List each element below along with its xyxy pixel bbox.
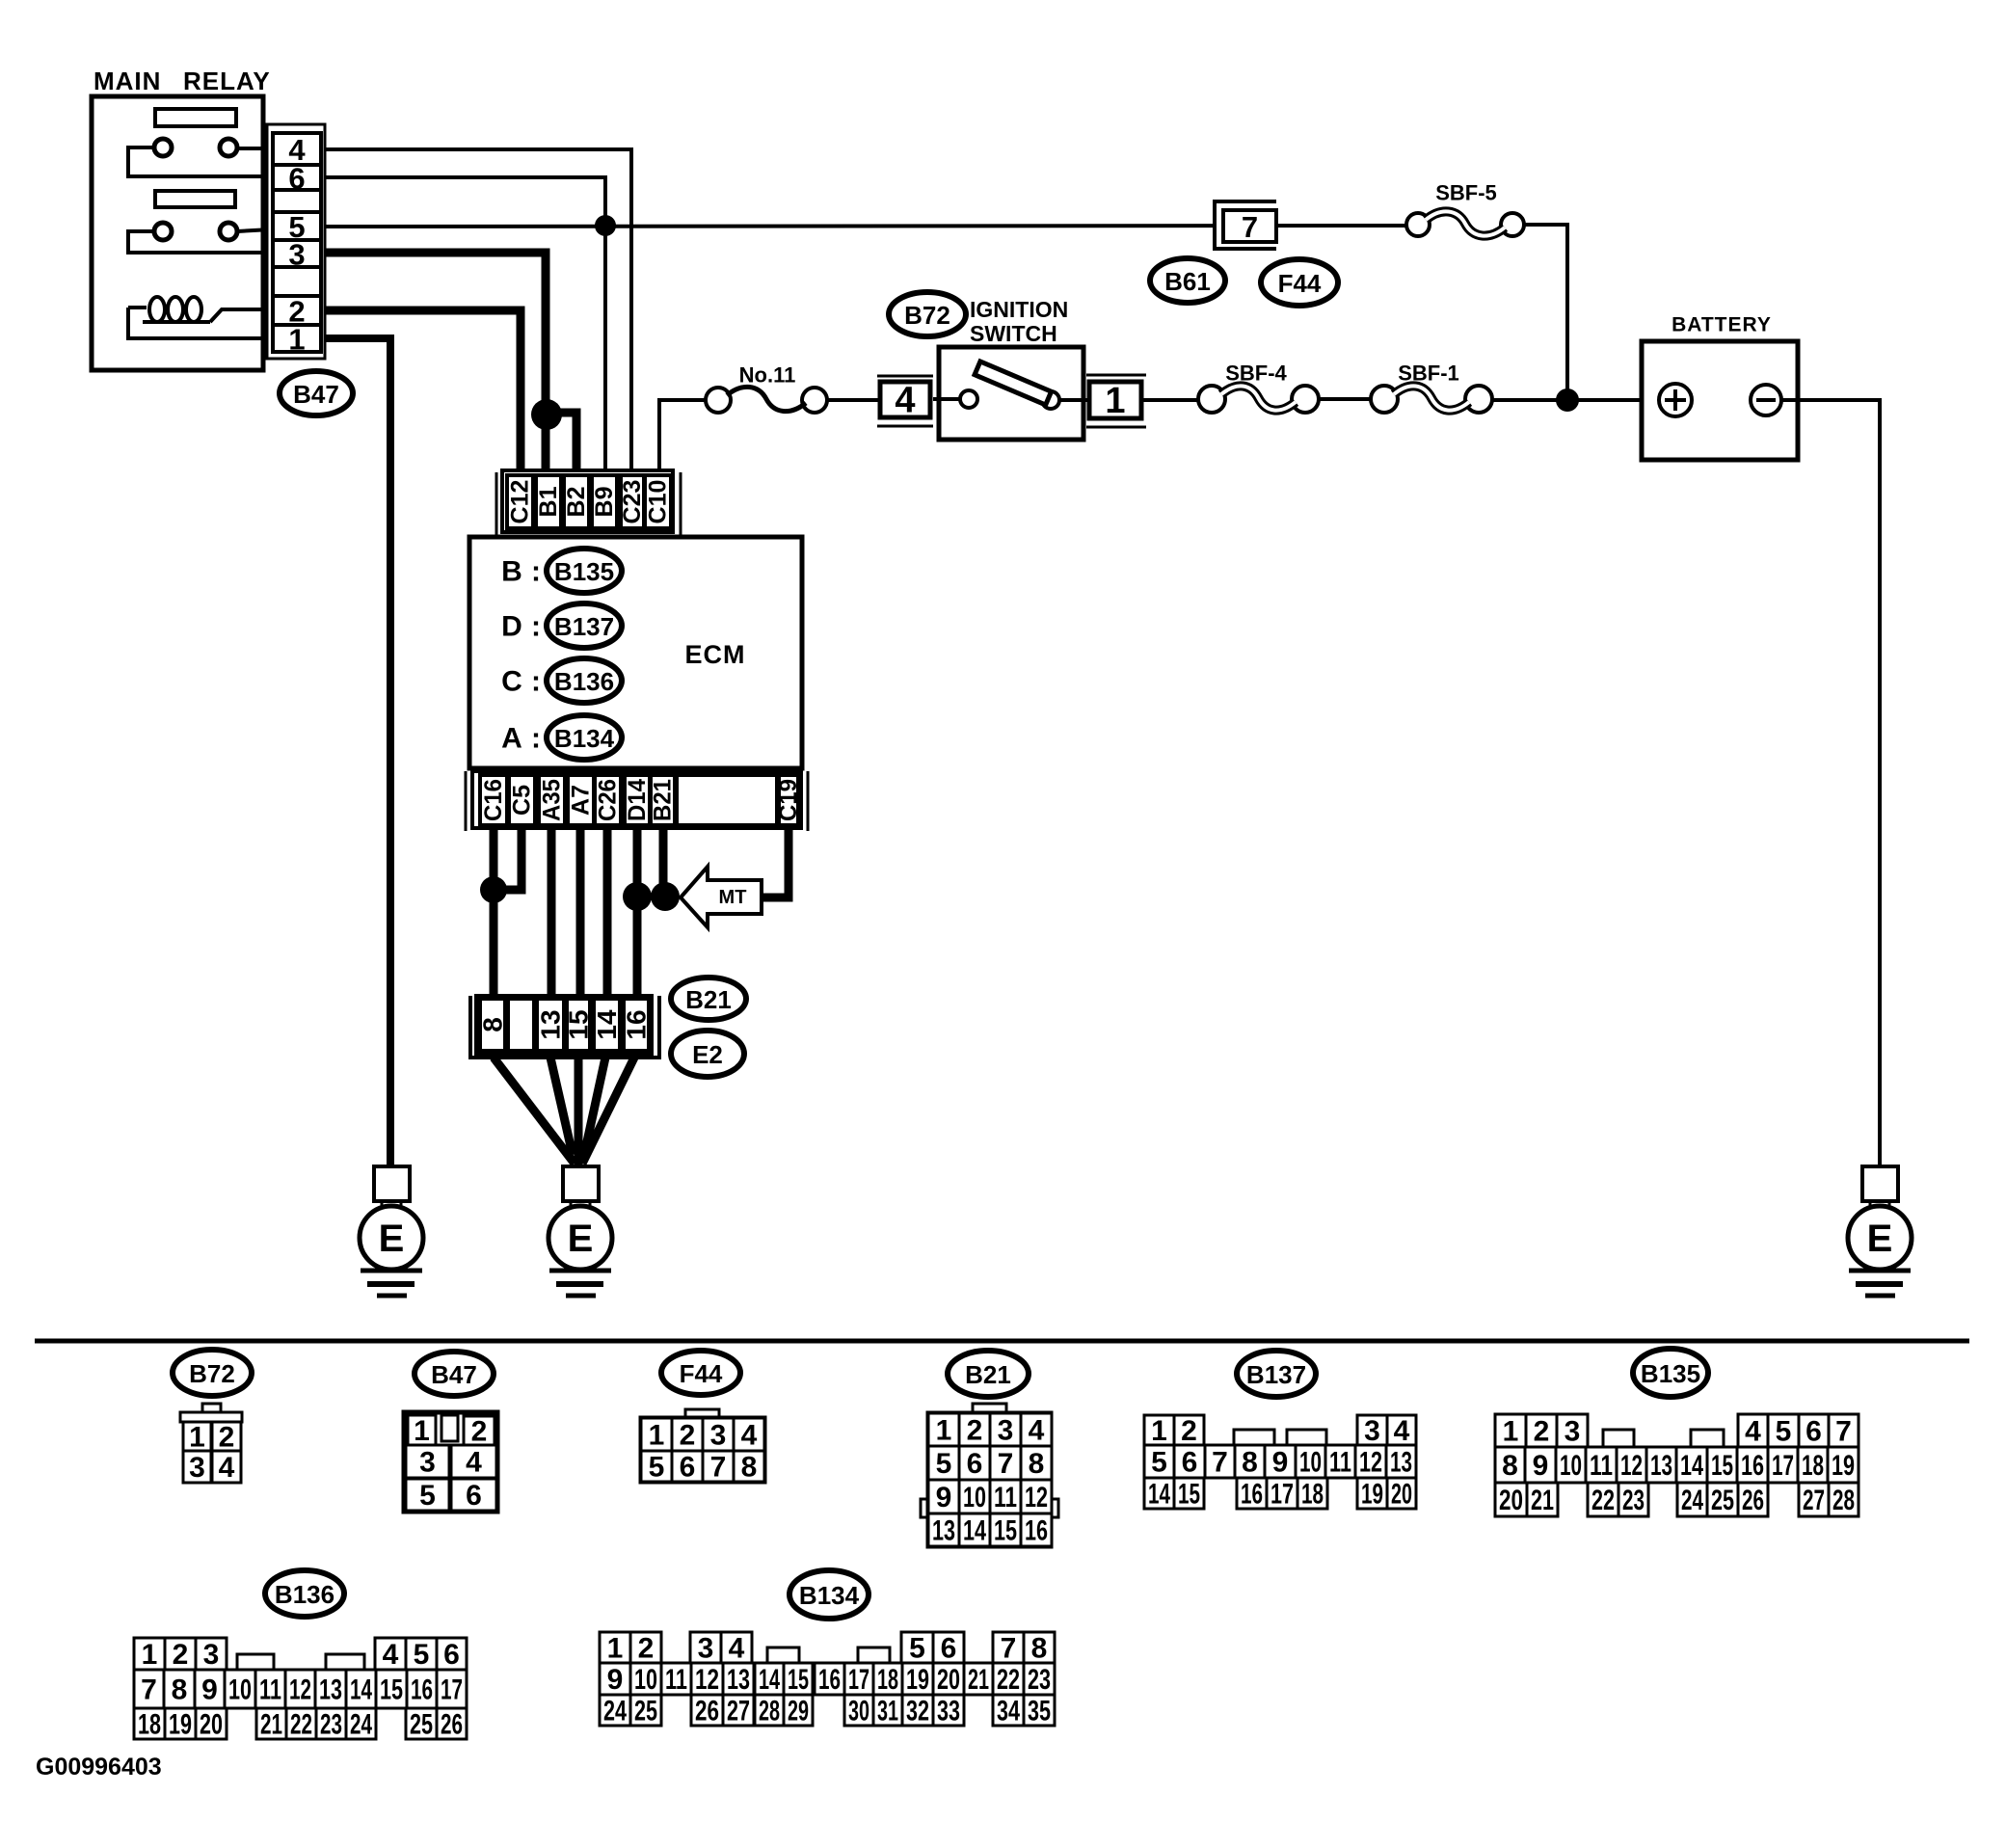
B136 pin 12 [285,1670,315,1708]
svg-text:A7: A7 [568,785,595,816]
connector view B21 side tabs [921,1499,1058,1517]
wire ECM C5 branch (thick) [494,828,522,890]
relay connector B47 shell [267,124,325,359]
B134 bump 2 [858,1647,890,1663]
svg-text:16: 16 [622,1009,652,1039]
wire ECM A7 to pin 15 (thick) [576,828,585,1003]
svg-text:10: 10 [634,1664,657,1696]
B135 pin 3 [1557,1414,1588,1448]
B134 pin 26 [691,1695,723,1727]
svg-text:12: 12 [1025,1482,1048,1513]
fuse SBF-4 [1198,386,1319,413]
B134 pin 35 [1024,1695,1055,1727]
B135 pin 15 [1707,1447,1737,1483]
svg-text:11: 11 [259,1674,281,1706]
B47 view pin 5 [406,1479,449,1512]
connector view B72 grid [180,1404,242,1422]
B137 pin 10 [1296,1445,1325,1479]
svg-text:5: 5 [909,1633,925,1665]
svg-text:13: 13 [1390,1447,1412,1479]
B136 pin 26 [437,1708,467,1741]
battery box [1642,341,1798,460]
svg-text:6: 6 [680,1452,696,1484]
svg-text:8: 8 [1029,1448,1045,1480]
svg-text:14: 14 [1148,1479,1170,1511]
ignition switch contact circle left [960,390,977,408]
svg-text:14: 14 [963,1515,986,1547]
B135 pin 5 [1768,1414,1799,1448]
B137 pin 19 [1357,1478,1387,1511]
wire ECM B21 pin (thick) [659,828,668,897]
svg-text:18: 18 [877,1664,898,1696]
svg-text:9: 9 [936,1482,952,1513]
F44 pin 8 [734,1451,764,1484]
wire ECM D14 to pin 16 (thick) [633,828,642,1003]
main relay contact wire row 1 to pin 4 [237,147,271,150]
connector view label F44 [661,1351,740,1395]
svg-text:E2: E2 [692,1040,723,1069]
B137 pin 2 [1174,1415,1204,1447]
svg-text:13: 13 [1650,1450,1672,1482]
B134 pin 8 [1024,1632,1055,1665]
B21 view pin 8 [1021,1446,1052,1480]
svg-text:F44: F44 [1278,269,1322,298]
svg-text:4: 4 [219,1452,235,1484]
lower connector pin 15 [564,999,594,1051]
B134 pin 18 [873,1663,902,1696]
B21 view pin 10 [959,1480,990,1513]
svg-text:13: 13 [727,1664,750,1696]
B21 view pin 13 [928,1513,959,1547]
svg-text:11: 11 [665,1664,687,1696]
main relay coil [128,297,271,322]
connector view label B21 [948,1351,1029,1397]
svg-text:C12: C12 [507,480,534,524]
B136 pin 23 [316,1708,346,1741]
svg-text:IGNITION: IGNITION [970,297,1068,322]
ECM connector oval B134 [547,715,622,760]
lower connector pin 13 [536,999,566,1051]
B134 pin 34 [993,1695,1024,1727]
svg-text:23: 23 [1622,1485,1645,1516]
B137 pin 8 [1235,1445,1265,1479]
svg-text:25: 25 [1711,1485,1734,1516]
B136 pin 15 [376,1670,407,1708]
svg-text:9: 9 [1272,1447,1289,1479]
ECM pin C5 [509,775,536,825]
connector view label B136 [265,1570,344,1617]
svg-text:4: 4 [383,1639,399,1671]
B134 pin 27 [723,1695,754,1727]
svg-text:B137: B137 [554,612,614,641]
connector view F44 tab [685,1409,719,1419]
svg-text:17: 17 [1772,1450,1794,1482]
ground E right (battery) [1848,1166,1912,1296]
svg-text:C23: C23 [619,480,646,524]
svg-text:12: 12 [289,1674,311,1706]
svg-text:21: 21 [968,1664,989,1696]
relay connector pin 1 [273,323,321,357]
svg-text:15: 15 [564,1009,594,1039]
svg-text:B: B [501,556,522,588]
connector label B72 (ignition switch) [889,292,966,336]
svg-text:12: 12 [695,1664,719,1696]
wire relay pin 1 to ground (thick) [325,338,390,1168]
lower connector shell [470,996,659,1058]
B21 view pin 15 [990,1513,1021,1547]
svg-text:6: 6 [1805,1416,1822,1448]
svg-text:2: 2 [173,1639,189,1671]
B136 pin 22 [286,1708,316,1741]
relay connector pin 4 [273,133,321,167]
svg-text:1: 1 [414,1415,430,1447]
svg-text:11: 11 [994,1482,1017,1513]
B21 view pin 3 [990,1413,1021,1447]
B134 pin 14 [755,1663,784,1696]
wire ignition pin 1 to fuse SBF-4 [1142,398,1198,402]
connector view B47 outline [404,1412,497,1512]
svg-text:2: 2 [219,1422,235,1454]
B134 pin 9 [600,1663,630,1696]
B134 pin 32 [902,1695,933,1727]
connector view label B72 [173,1350,252,1396]
svg-text::: : [531,723,541,755]
B136 pin 18 [134,1708,165,1741]
main relay contact bar 2 [155,191,235,207]
svg-text:17: 17 [1270,1479,1294,1511]
ignition switch connector pin 4 [877,376,933,426]
svg-text:3: 3 [1565,1416,1581,1448]
svg-text:1: 1 [142,1639,158,1671]
B135 pin 23 [1618,1483,1648,1516]
junction dot B21 at MT [651,882,680,911]
svg-text:21: 21 [260,1709,282,1741]
B134 bump 1 [767,1647,799,1663]
B134 pin 33 [933,1695,964,1727]
B21 view pin 1 [928,1413,959,1447]
svg-text:22: 22 [1591,1485,1615,1516]
svg-text:ECM: ECM [685,640,746,669]
svg-text:4: 4 [1745,1416,1761,1448]
wire contact to pin 1 [1059,398,1088,402]
svg-text:1: 1 [1151,1415,1167,1447]
B134 pin 30 [844,1695,873,1727]
svg-text:C5: C5 [509,785,536,816]
relay connector pin 3 [273,238,321,272]
svg-text:22: 22 [997,1664,1020,1696]
B136 pin 9 [195,1670,225,1708]
B134 pin 12 [691,1663,723,1696]
svg-text:14: 14 [759,1664,780,1696]
B135 pin 11 [1586,1447,1617,1483]
svg-text:B134: B134 [799,1581,860,1610]
relay connector pin 2 [273,295,321,329]
svg-text:10: 10 [228,1674,252,1706]
svg-text:27: 27 [1803,1485,1825,1516]
svg-text:2: 2 [638,1633,655,1665]
svg-text:8: 8 [1502,1450,1518,1482]
svg-text:16: 16 [1741,1450,1764,1482]
B136 pin 4 [375,1638,406,1671]
B137 pin 16 [1237,1478,1267,1511]
svg-text:5: 5 [936,1448,952,1480]
B134 pin 20 [933,1663,964,1696]
svg-text:26: 26 [1742,1485,1764,1516]
svg-text:3: 3 [419,1447,436,1479]
svg-text:RELAY: RELAY [183,67,271,95]
B137 pin 14 [1144,1478,1174,1511]
ECM bottom blank cell [677,775,777,825]
ECM pin B21 [650,775,677,825]
svg-text:18: 18 [138,1709,161,1741]
svg-text:16: 16 [1025,1515,1048,1547]
lower connector pin 8 [478,999,508,1051]
B47 view blank [441,1415,458,1441]
svg-text:25: 25 [410,1709,433,1741]
B137 pin 9 [1265,1445,1296,1479]
svg-text:MAIN: MAIN [94,67,161,95]
svg-text:23: 23 [1028,1664,1051,1696]
connector view label B135 [1633,1349,1708,1397]
B21 view pin 6 [959,1446,990,1480]
B135 bump 2 [1691,1430,1724,1447]
B135 pin 19 [1828,1447,1859,1483]
svg-text:8: 8 [172,1674,188,1706]
B21 view pin 16 [1021,1513,1052,1547]
svg-text:24: 24 [350,1709,372,1741]
B21 view pin 4 [1021,1413,1052,1447]
svg-text:7: 7 [1212,1447,1228,1479]
connector view label B47 [415,1352,494,1396]
B137 pin 1 [1144,1415,1174,1447]
connector label B61 [1150,258,1225,303]
B136 pin 25 [406,1708,437,1741]
svg-text:4: 4 [729,1633,745,1665]
svg-text:B47: B47 [293,380,339,409]
svg-text:11: 11 [1590,1450,1613,1482]
lower connector pin 14 [592,999,622,1051]
B135 pin 22 [1588,1483,1618,1516]
svg-text:17: 17 [441,1674,463,1706]
svg-text:10: 10 [1299,1447,1322,1479]
connector view label B134 [789,1570,869,1619]
B135 pin 13 [1646,1447,1676,1483]
B136 pin 24 [346,1708,376,1741]
B134 pin 25 [630,1695,661,1727]
svg-text:16: 16 [818,1664,841,1696]
B136 bump 2 [326,1654,364,1670]
relay connector pin 5 [273,210,321,244]
svg-text:B21: B21 [965,1360,1011,1389]
svg-text:26: 26 [695,1696,719,1727]
svg-text:8: 8 [1242,1447,1258,1479]
B72 pin 4 [212,1451,241,1484]
B136 pin 2 [165,1638,196,1671]
branch wire to ECM B2 (thick) [547,413,576,477]
B136 pin 19 [165,1708,196,1741]
svg-text:MT: MT [719,887,747,908]
B134 pin 21 [964,1663,993,1696]
svg-text:4: 4 [1394,1415,1410,1447]
B137 pin 4 [1387,1415,1416,1447]
svg-text:SBF-1: SBF-1 [1398,362,1459,386]
svg-text:B72: B72 [189,1359,235,1388]
B134 pin 3 [690,1632,721,1665]
svg-text:6: 6 [941,1633,957,1665]
B137 pin 15 [1174,1478,1204,1511]
svg-text:32: 32 [906,1696,929,1727]
svg-text:9: 9 [1533,1450,1549,1482]
svg-text::: : [531,666,541,698]
B135 pin 21 [1527,1483,1558,1516]
B135 pin 8 [1495,1447,1525,1483]
wire relay pin 6 to ECM B9 [325,177,605,477]
svg-text:3: 3 [710,1420,727,1452]
B136 pin 13 [315,1670,346,1708]
main relay box [92,96,263,370]
fuse No.11 [706,387,827,413]
B21 view pin 14 [959,1513,990,1547]
svg-text:5: 5 [1776,1416,1792,1448]
B135 pin 14 [1676,1447,1707,1483]
B137 bump 2 [1287,1430,1326,1445]
svg-text:4: 4 [895,381,915,421]
B47 view pin 4 [451,1445,496,1479]
F44 pin 2 [672,1418,703,1452]
B137 pin 12 [1355,1445,1386,1479]
svg-text:A: A [501,723,522,755]
B135 pin 9 [1525,1447,1556,1483]
svg-text:7: 7 [1835,1416,1852,1448]
svg-text:15: 15 [994,1515,1017,1547]
wire fuse No.11 to ignition connector pin 4 [827,398,881,402]
B135 pin 16 [1737,1447,1768,1483]
B21 view pin 9 [928,1480,959,1513]
svg-text:5: 5 [649,1452,665,1484]
ECM connector oval B137 [547,603,622,648]
B134 pin 24 [600,1695,630,1727]
B134 pin 17 [844,1663,873,1696]
svg-text:BATTERY: BATTERY [1672,314,1772,336]
svg-text:24: 24 [603,1696,627,1727]
svg-text:31: 31 [877,1696,898,1727]
svg-text:7: 7 [1001,1633,1017,1665]
svg-text:C10: C10 [645,480,672,524]
svg-text:23: 23 [320,1709,342,1741]
ground E left (relay pin 1) [360,1166,423,1296]
svg-text:6: 6 [466,1480,482,1512]
B137 pin 18 [1297,1478,1327,1511]
connector label F44 [1261,259,1338,306]
B135 pin 25 [1707,1483,1738,1516]
B135 pin 24 [1677,1483,1707,1516]
ECM pin C10 [645,475,672,528]
svg-text:19: 19 [169,1709,192,1741]
svg-text:SWITCH: SWITCH [970,321,1057,346]
main relay contact wiring row 2 to pin 3 [128,231,271,253]
separator line [35,1339,1969,1344]
B134 pin 7 [993,1632,1024,1665]
svg-text:26: 26 [441,1709,463,1741]
battery minus terminal [1751,385,1781,415]
svg-text:B61: B61 [1164,267,1211,296]
B136 pin 3 [196,1638,227,1671]
B21 view pin 12 [1021,1480,1052,1513]
svg-text:6: 6 [967,1448,983,1480]
svg-text:11: 11 [1329,1447,1351,1479]
svg-text:1: 1 [607,1633,624,1665]
B135 pin 4 [1738,1414,1768,1448]
B135 pin 26 [1738,1483,1768,1516]
B136 pin 17 [437,1670,467,1708]
main relay contact bar 1 [155,109,236,126]
connector view B21 outline [928,1413,1051,1546]
svg-text:B137: B137 [1246,1360,1306,1389]
B136 pin 16 [407,1670,437,1708]
B137 pin 11 [1325,1445,1355,1479]
B21 view pin 11 [990,1480,1021,1513]
B137 pin 20 [1387,1478,1416,1511]
wire relay pin 2 to ECM C12 (thick) [325,310,521,477]
wire ECM C16 to pin 8 (thick) [490,828,498,1003]
wire pin4 to contact [933,397,960,401]
ECM pin C19 [775,775,802,825]
B135 pin 6 [1799,1414,1829,1448]
svg-text:5: 5 [414,1639,430,1671]
svg-text:3: 3 [998,1415,1014,1447]
wire ECM C26 to pin 14 (thick) [603,828,612,1003]
svg-text:15: 15 [788,1664,809,1696]
B134 pin 13 [723,1663,754,1696]
B134 pin 11 [661,1663,691,1696]
fuse SBF-1 [1371,386,1492,413]
fuse 7 connector box [1215,201,1276,249]
svg-text:1: 1 [288,323,305,357]
wire pin 16 to ground point [582,1058,634,1164]
B136 bump 1 [237,1654,274,1670]
B137 pin 13 [1386,1445,1416,1479]
B135 pin 1 [1495,1414,1526,1448]
svg-text:E: E [1867,1218,1893,1260]
svg-text:24: 24 [1681,1485,1703,1516]
svg-text:B136: B136 [275,1580,334,1609]
ECM top connector shell [496,470,681,536]
svg-text:15: 15 [380,1674,403,1706]
connector view B21 tab [973,1404,1006,1414]
wire pin 13 to ground point [550,1058,573,1155]
ECM pin D14 [624,775,651,825]
svg-text:7: 7 [1242,210,1258,244]
svg-text:12: 12 [1620,1450,1643,1482]
battery plus terminal [1659,384,1692,416]
svg-text:E: E [568,1218,594,1260]
main relay coil wire to pin 1 [128,308,271,338]
wire ECM C10 to fuse No.11 [659,400,706,477]
B136 pin 10 [225,1670,255,1708]
F44 pin 4 [734,1418,764,1452]
wire pin 15 to ground point [575,1058,583,1166]
svg-text:20: 20 [1499,1485,1523,1516]
ECM pin C23 [619,475,646,528]
svg-text:4: 4 [741,1420,758,1452]
svg-text:G00996403: G00996403 [36,1754,162,1781]
ECM pin B9 [591,475,618,528]
svg-text:2: 2 [680,1420,696,1452]
B134 pin 31 [873,1695,902,1727]
svg-text:18: 18 [1802,1450,1824,1482]
B134 pin 23 [1024,1663,1055,1696]
ground E middle (ECM) [548,1166,612,1296]
